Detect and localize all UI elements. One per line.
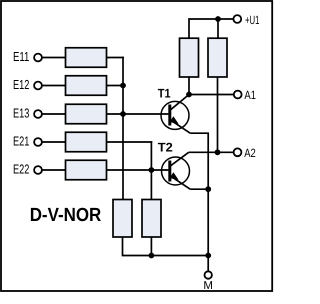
junction K2-E22 <box>149 167 155 173</box>
junction K1-E13 <box>120 111 126 117</box>
svg-text:A2: A2 <box>244 146 256 160</box>
junction A1 <box>186 92 192 98</box>
svg-text:E13: E13 <box>13 106 29 121</box>
resistor R2 (E12 input) <box>66 76 107 96</box>
svg-text:E22: E22 <box>13 162 29 177</box>
transistor T1 <box>158 87 190 134</box>
svg-text:T1: T1 <box>158 87 171 101</box>
node E11 <box>13 49 42 64</box>
wire E11 to R1 <box>42 57 66 59</box>
wire +U1 rail <box>189 19 233 38</box>
wire R3 output to T1 base <box>107 113 169 115</box>
resistor R8 (bias lower left) <box>113 200 132 238</box>
node E13 <box>13 106 42 121</box>
wire vertical bus K1 <box>122 57 124 200</box>
resistor R1 (E11 input) <box>66 48 107 68</box>
junction A2 <box>215 149 221 155</box>
svg-text:T2: T2 <box>158 141 173 155</box>
transistor T2 <box>158 141 190 190</box>
resistor R9 (bias lower right) <box>142 200 161 238</box>
wire E13 to R3 <box>42 113 66 115</box>
node E21 <box>13 134 42 149</box>
resistor R7 (collector load T2) <box>208 38 227 77</box>
resistor R5 (E22 input) <box>66 160 107 180</box>
junction +U1 rail <box>215 16 221 22</box>
wire E22 to R5 <box>42 169 66 171</box>
wire T2 emitter to emitter bus <box>190 188 208 190</box>
wire R8 bottom to M rail <box>123 237 152 256</box>
svg-text:E21: E21 <box>13 134 29 149</box>
svg-text:E12: E12 <box>13 77 29 92</box>
wire emitter bus to node M <box>207 256 209 272</box>
junction K1-E12 <box>120 83 126 89</box>
wire R9 bottom to M rail <box>150 237 152 256</box>
wire E21 to R4 <box>42 141 66 143</box>
svg-text:M: M <box>203 280 213 292</box>
junction M rail-emitter bus <box>205 253 211 259</box>
node E22 <box>13 162 42 177</box>
wire R5 output to T2 base <box>107 169 169 171</box>
junction R9-M rail <box>149 253 155 259</box>
node +U1 <box>233 13 259 27</box>
wire T1 emitter to emitter bus <box>190 133 208 255</box>
wire A2 rail <box>189 151 234 153</box>
wire A1 rail <box>189 94 234 96</box>
node E12 <box>13 77 42 92</box>
wire R7 bottom to junction A2 <box>217 77 219 152</box>
wire M rail <box>151 255 208 257</box>
node A2 <box>234 146 256 160</box>
svg-text:+U1: +U1 <box>245 13 260 27</box>
wire R2 output to node K1 <box>107 85 124 87</box>
wire R1 output to node K1 <box>107 57 124 59</box>
svg-text:D-V-NOR: D-V-NOR <box>30 205 102 226</box>
node M <box>203 271 213 292</box>
junction emitter bus <box>205 186 211 192</box>
wire +U1 junction down to R7 <box>217 19 219 38</box>
resistor R4 (E21 input) <box>66 132 107 152</box>
resistor R3 (E13 input) <box>66 104 107 124</box>
wire vertical bus K2 <box>150 141 152 199</box>
svg-text:E11: E11 <box>13 49 29 64</box>
resistor R6 (collector load T1) <box>180 38 199 77</box>
node A1 <box>234 88 256 102</box>
wire R6 bottom to node A1 <box>188 77 190 95</box>
svg-text:A1: A1 <box>244 88 256 102</box>
wire R4 output to node K2 <box>107 141 153 143</box>
wire E12 to R2 <box>42 85 66 87</box>
